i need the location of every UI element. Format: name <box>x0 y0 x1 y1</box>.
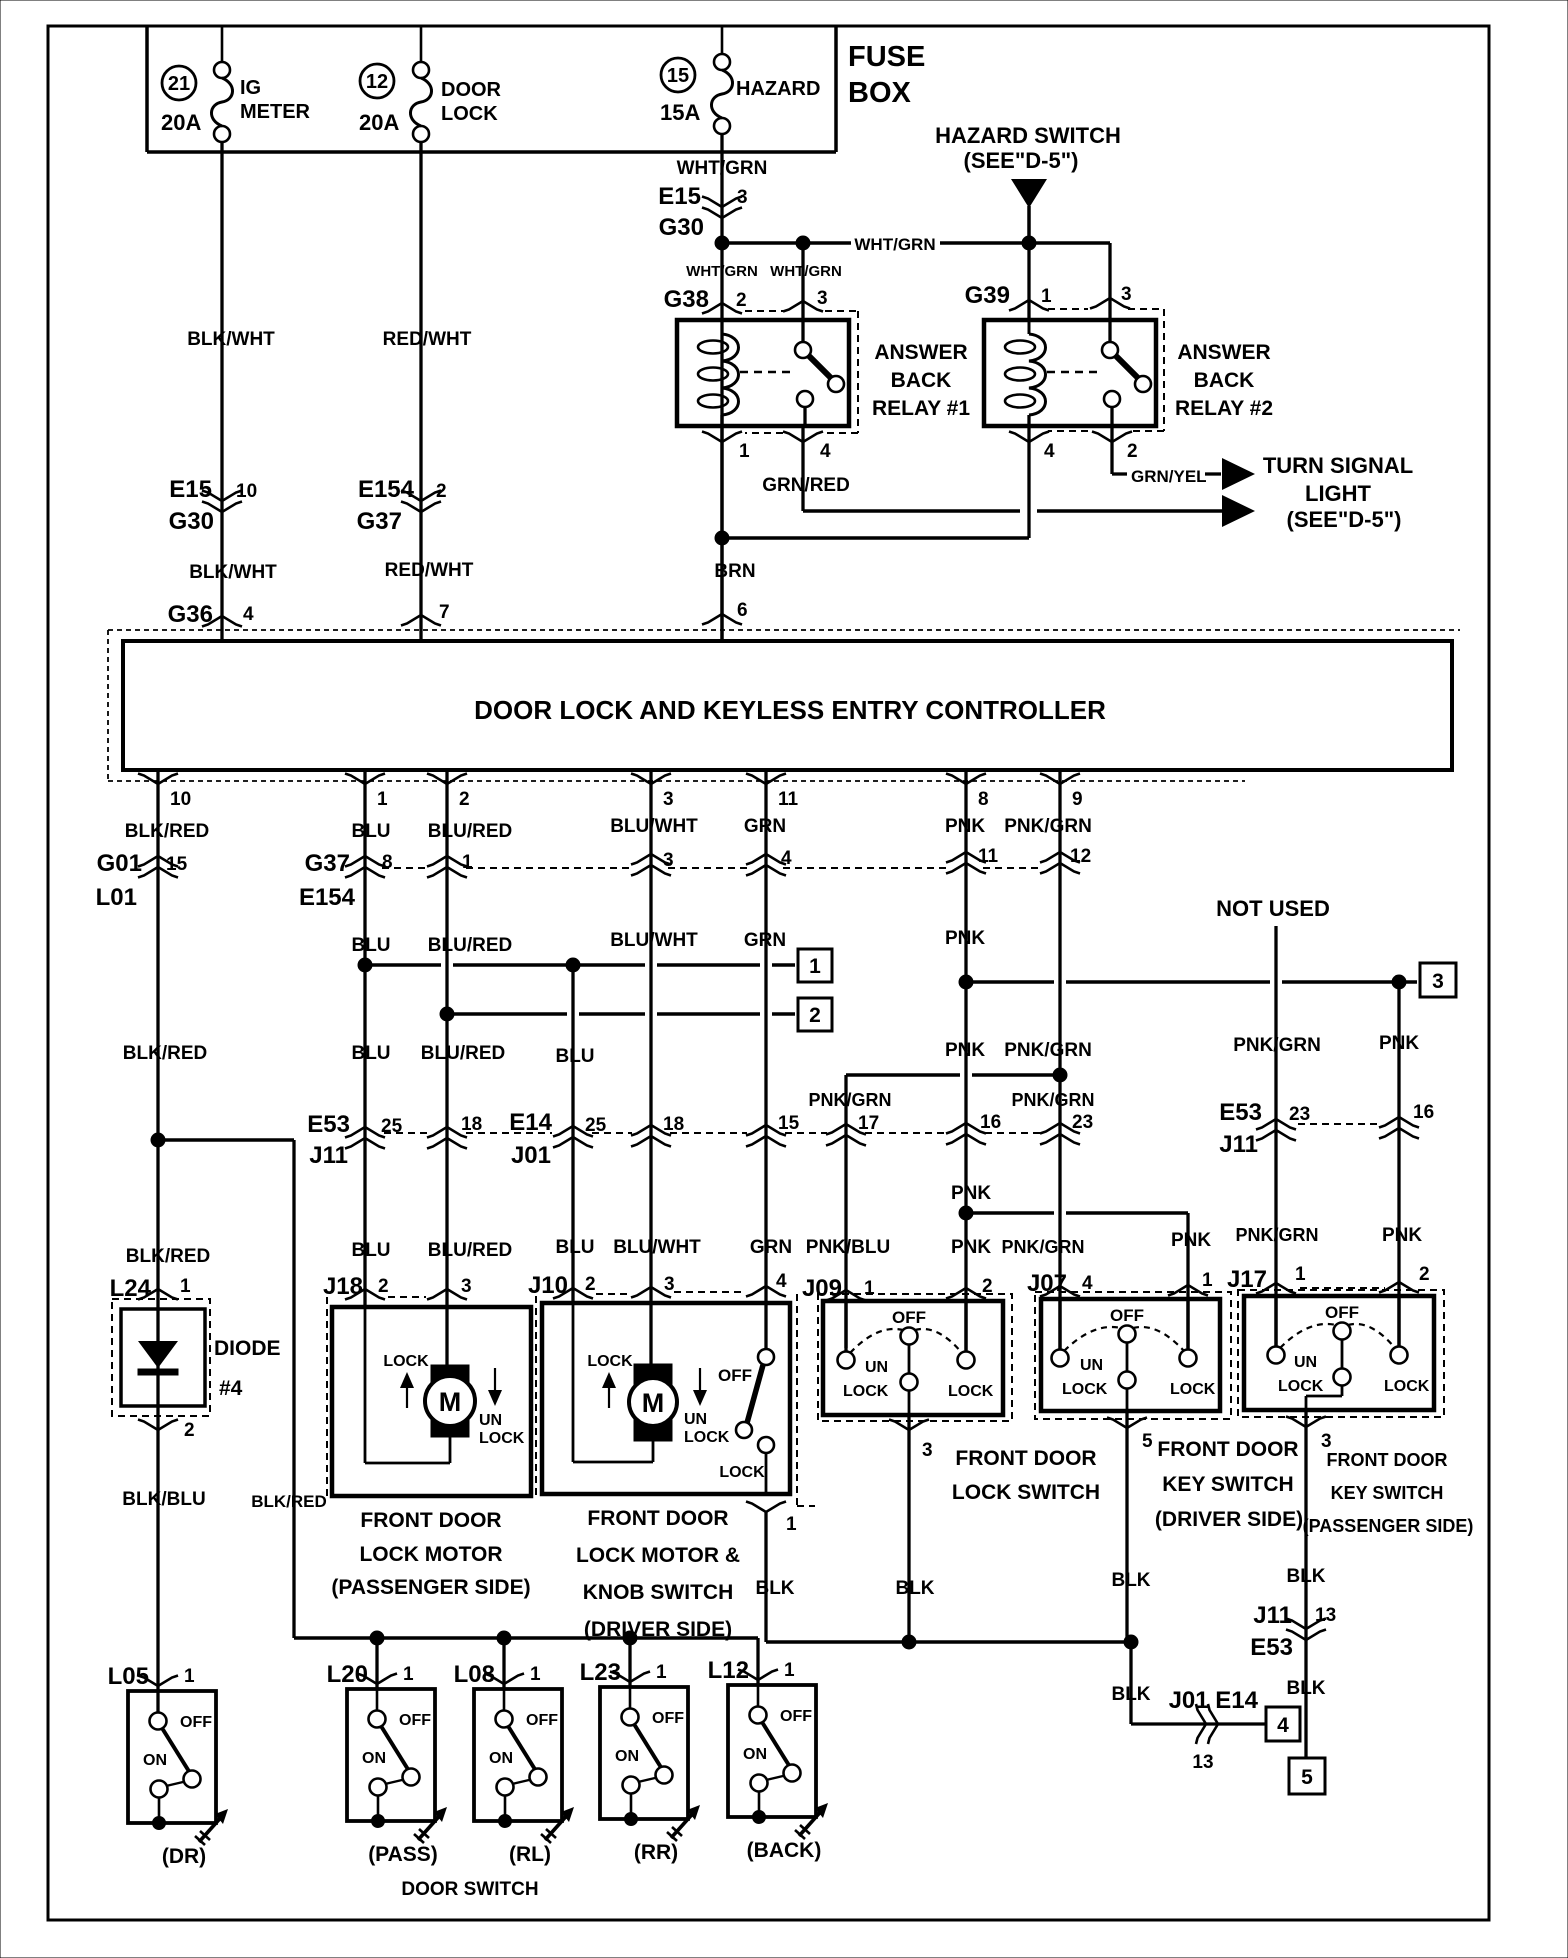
junction node bus L23 <box>623 1631 637 1686</box>
svg-text:PNK: PNK <box>1379 1033 1419 1054</box>
wire RED/WHT from fuse 12 to controller pin 7 <box>419 142 422 641</box>
J09 caption <box>952 1447 1100 1504</box>
controller pin 9 <box>1040 774 1083 811</box>
relay G39 dashed outline <box>1048 309 1164 431</box>
J07 caption <box>1155 1438 1303 1531</box>
svg-text:5: 5 <box>1301 1766 1313 1789</box>
labels WHT/GRN pair above relay G38 <box>686 263 842 280</box>
J17 front door key switch box <box>1244 1296 1434 1410</box>
svg-text:LOCK: LOCK <box>587 1353 633 1370</box>
dashed outline J09 <box>818 1294 1012 1421</box>
J09 pin 3 exit <box>889 1415 933 1642</box>
svg-text:J01 E14: J01 E14 <box>1169 1687 1259 1714</box>
wire door switch bus <box>294 1638 758 1684</box>
J07 switch labels <box>1062 1357 1216 1398</box>
fuse 21 20A IG METER <box>161 26 311 142</box>
wire BLK/WHT from fuse 21 to controller pin 4 <box>220 142 223 641</box>
svg-text:BLU: BLU <box>555 1046 594 1067</box>
wire color labels row 2 <box>351 928 985 956</box>
svg-text:J11: J11 <box>309 1142 348 1169</box>
door switch L12 caption (BACK) <box>747 1839 822 1862</box>
svg-text:GRN/RED: GRN/RED <box>762 475 850 496</box>
connector E14/J01 pin 25 <box>509 1109 606 1169</box>
ground at L23 <box>667 1805 700 1841</box>
svg-text:ON: ON <box>143 1752 167 1769</box>
svg-text:M: M <box>642 1388 665 1418</box>
svg-text:WHT/GRN: WHT/GRN <box>677 158 768 179</box>
junction node on BLU/RED <box>440 1007 454 1021</box>
svg-text:UN: UN <box>684 1411 707 1428</box>
svg-text:3: 3 <box>461 1276 472 1297</box>
svg-text:#4: #4 <box>219 1377 243 1400</box>
hazard switch symbol <box>935 123 1121 243</box>
svg-text:G30: G30 <box>659 214 704 241</box>
label BLK under J09 <box>895 1578 934 1599</box>
relay G38 pin 4 <box>783 432 831 463</box>
svg-text:BLU/WHT: BLU/WHT <box>610 816 698 837</box>
svg-text:WHT/GRN: WHT/GRN <box>686 263 758 280</box>
svg-text:PNK: PNK <box>945 816 985 837</box>
controller pin 2 <box>427 774 470 811</box>
svg-text:2: 2 <box>585 1274 596 1295</box>
svg-text:PNK: PNK <box>951 1183 991 1204</box>
svg-text:LOCK MOTOR: LOCK MOTOR <box>359 1543 502 1566</box>
J18 front door lock motor box <box>332 1307 531 1496</box>
wire color labels row 5 <box>126 1225 1423 1267</box>
svg-text:LOCK: LOCK <box>441 103 498 125</box>
svg-text:3: 3 <box>1121 284 1132 305</box>
svg-text:6: 6 <box>737 600 748 621</box>
junction node before box 3 <box>1392 975 1417 989</box>
J09 switch labels <box>843 1359 994 1400</box>
label BLK under J07 <box>1111 1570 1150 1591</box>
svg-text:E15: E15 <box>169 476 212 503</box>
dashed outline J07 <box>1035 1292 1231 1419</box>
svg-text:3: 3 <box>1321 1431 1332 1452</box>
wire BLU/RED from controller pin 2 <box>445 770 448 1365</box>
svg-text:OFF: OFF <box>180 1714 212 1731</box>
svg-text:BLK/WHT: BLK/WHT <box>189 562 277 583</box>
svg-text:LOCK: LOCK <box>383 1353 429 1370</box>
svg-text:BRN: BRN <box>714 561 755 582</box>
svg-text:GRN/YEL: GRN/YEL <box>1131 467 1207 486</box>
wire PNK branch from node 3 <box>1397 982 1400 1348</box>
svg-text:J17: J17 <box>1227 1266 1267 1293</box>
svg-text:(DRIVER SIDE): (DRIVER SIDE) <box>1155 1508 1303 1531</box>
svg-text:PNK: PNK <box>1171 1230 1211 1251</box>
svg-text:ON: ON <box>743 1746 767 1763</box>
svg-text:10: 10 <box>170 789 191 810</box>
svg-text:BACK: BACK <box>891 369 952 392</box>
junction node BLK bus J09 <box>902 1635 916 1649</box>
svg-text:11: 11 <box>778 789 799 810</box>
connector J18 pin 2 <box>323 1273 389 1300</box>
label BLK/WHT upper <box>187 329 275 350</box>
svg-text:LOCK: LOCK <box>479 1430 525 1447</box>
svg-text:UN: UN <box>479 1412 502 1429</box>
connector G37/E154 row dashed link <box>382 867 1043 869</box>
svg-text:OFF: OFF <box>718 1366 752 1385</box>
svg-text:ANSWER: ANSWER <box>1177 341 1270 364</box>
label BLK under J10 <box>755 1578 794 1599</box>
diode #4 label <box>214 1337 281 1400</box>
diode pin 2 <box>138 1420 195 1442</box>
svg-text:4: 4 <box>781 848 792 869</box>
relay G38 dashed outline <box>745 311 858 433</box>
svg-text:E154: E154 <box>358 476 415 503</box>
svg-text:L01: L01 <box>96 884 137 911</box>
label BLK above node box 5 <box>1286 1678 1325 1699</box>
connector J17 pin 1 <box>1227 1264 1306 1294</box>
svg-text:FUSE: FUSE <box>848 41 925 73</box>
svg-text:RED/WHT: RED/WHT <box>385 560 474 581</box>
wire BRN from relay pin1 to controller pin 6 <box>720 426 723 641</box>
svg-text:12: 12 <box>366 71 388 93</box>
svg-text:1: 1 <box>1041 286 1052 307</box>
door switch L12 pin 1 <box>708 1657 795 1684</box>
svg-text:23: 23 <box>1072 1112 1093 1133</box>
label BLK/WHT lower <box>189 562 277 583</box>
svg-text:15: 15 <box>667 65 689 87</box>
svg-text:(DR): (DR) <box>162 1845 206 1868</box>
connector J10 pin 2 <box>528 1272 596 1299</box>
dashed outline J17 <box>1238 1290 1444 1417</box>
label DOOR SWITCH <box>401 1879 538 1900</box>
svg-text:LIGHT: LIGHT <box>1305 481 1372 506</box>
svg-text:PNK/GRN: PNK/GRN <box>1004 1040 1092 1061</box>
J18 lock arrow <box>383 1353 429 1408</box>
wire BLK/RED from controller pin 10 <box>156 770 159 1713</box>
label RED/WHT lower <box>385 560 474 581</box>
labels PNK/GRN row 4 <box>808 1090 1094 1110</box>
svg-text:WHT/GRN: WHT/GRN <box>770 263 842 280</box>
svg-text:BLK/RED: BLK/RED <box>251 1492 327 1511</box>
J10 internal wires <box>573 1303 653 1462</box>
svg-text:21: 21 <box>168 73 190 95</box>
connector G37/E154 pin 1 <box>427 852 473 878</box>
label BRN <box>714 561 755 582</box>
J10 unlock arrow <box>684 1368 730 1446</box>
wire PNK/GRN branch to J09 <box>846 1075 1060 1348</box>
connector E15/G30 pin 3 on WHT/GRN <box>658 183 747 241</box>
svg-text:E154: E154 <box>299 884 356 911</box>
door switch L20 caption (PASS) <box>368 1843 438 1866</box>
svg-text:1: 1 <box>530 1664 541 1685</box>
relay G38 label <box>872 341 970 420</box>
svg-text:BLK/RED: BLK/RED <box>123 1043 207 1064</box>
svg-text:17: 17 <box>858 1113 879 1134</box>
J17 caption <box>1303 1450 1474 1536</box>
svg-text:(RR): (RR) <box>634 1841 678 1864</box>
connector E14/J01 pin 17 <box>826 1113 879 1146</box>
svg-text:5: 5 <box>1142 1431 1153 1452</box>
svg-text:ON: ON <box>362 1750 386 1767</box>
connector G01/L01 pin 15 <box>96 850 188 911</box>
connector J10 pin 4 <box>674 1271 787 1297</box>
svg-text:BLK: BLK <box>895 1578 934 1599</box>
svg-text:BLU/RED: BLU/RED <box>428 1240 512 1261</box>
svg-text:TURN SIGNAL: TURN SIGNAL <box>1263 453 1413 478</box>
svg-text:1: 1 <box>1295 1264 1306 1285</box>
svg-text:8: 8 <box>382 852 393 873</box>
connector E14/J01 pin 23 <box>1040 1112 1093 1145</box>
svg-text:LOCK: LOCK <box>1170 1381 1216 1398</box>
wire BLK ground bus <box>766 1512 1131 1642</box>
junction node on BLU <box>358 958 372 972</box>
svg-text:BLU/RED: BLU/RED <box>421 1043 505 1064</box>
node box 4 <box>1266 1707 1300 1741</box>
svg-text:2: 2 <box>184 1420 195 1441</box>
svg-text:(PASSENGER SIDE): (PASSENGER SIDE) <box>331 1576 530 1599</box>
svg-text:LOCK: LOCK <box>1384 1378 1430 1395</box>
svg-text:PNK: PNK <box>951 1237 991 1258</box>
door switch L23 pin 1 <box>580 1659 667 1686</box>
J10 front door lock motor and knob switch box <box>542 1303 790 1494</box>
J18 internal wires <box>365 1309 450 1463</box>
connector E15/G30 pin 10 on BLK/WHT <box>169 476 258 535</box>
wire BLK/RED branch to door switches <box>158 1140 294 1638</box>
svg-text:15: 15 <box>166 854 188 875</box>
svg-text:J18: J18 <box>323 1273 363 1300</box>
svg-text:BLK: BLK <box>755 1578 794 1599</box>
connector E154/G37 pin 2 on RED/WHT <box>357 476 447 535</box>
connector E53/J11 right pin 23 <box>1219 1099 1310 1158</box>
svg-text:DOOR: DOOR <box>441 79 502 101</box>
svg-text:BLU: BLU <box>351 1240 390 1261</box>
svg-text:1: 1 <box>377 789 388 810</box>
svg-text:E15: E15 <box>658 183 701 210</box>
svg-text:PNK/BLU: PNK/BLU <box>806 1237 890 1258</box>
label NOT USED <box>1216 896 1330 921</box>
wire BLU from controller pin 1 <box>363 770 366 1309</box>
svg-text:2: 2 <box>1127 441 1138 462</box>
svg-text:BLU: BLU <box>351 1043 390 1064</box>
svg-text:BLU/RED: BLU/RED <box>428 821 512 842</box>
connector J17 pin 2 <box>1300 1264 1430 1293</box>
junction node bus L08 <box>497 1631 511 1688</box>
relay G38 pin 1 <box>702 432 750 463</box>
svg-text:FRONT DOOR: FRONT DOOR <box>955 1447 1096 1470</box>
svg-text:3: 3 <box>1432 970 1444 993</box>
svg-text:OFF: OFF <box>652 1710 684 1727</box>
svg-text:(PASSENGER SIDE): (PASSENGER SIDE) <box>1303 1516 1474 1536</box>
label BLK/BLU <box>122 1489 205 1510</box>
connector J09 pin 1 <box>802 1275 875 1302</box>
J10 knob switch <box>718 1349 774 1494</box>
node box 3 <box>1420 963 1456 997</box>
svg-text:GRN: GRN <box>744 816 786 837</box>
connector G37/E154 pin 12 <box>1040 846 1091 874</box>
svg-text:LOCK: LOCK <box>843 1383 889 1400</box>
svg-text:KEY SWITCH: KEY SWITCH <box>1162 1473 1293 1496</box>
svg-text:PNK: PNK <box>945 928 985 949</box>
svg-text:BLK: BLK <box>1286 1566 1325 1587</box>
svg-text:1: 1 <box>739 441 750 462</box>
controller pin 1 <box>345 774 388 811</box>
svg-text:(SEE"D-5"): (SEE"D-5") <box>1287 507 1402 532</box>
connector J07 pin 4 <box>1027 1270 1093 1297</box>
svg-text:OFF: OFF <box>399 1712 431 1729</box>
wire color labels row 1 <box>125 816 1092 842</box>
wire PNK/GRN from controller pin 9 <box>1058 770 1061 1352</box>
svg-text:25: 25 <box>585 1115 607 1136</box>
svg-text:15A: 15A <box>660 100 700 125</box>
connector L24 pin 1 <box>110 1275 191 1302</box>
connector G36 pin 7 <box>401 602 450 626</box>
svg-text:OFF: OFF <box>1325 1303 1359 1322</box>
svg-text:2: 2 <box>1419 1264 1430 1285</box>
door switch L08 <box>474 1689 562 1828</box>
svg-text:(PASS): (PASS) <box>368 1843 438 1866</box>
turn signal light label <box>1263 453 1413 532</box>
label BLK/RED riser <box>251 1492 327 1511</box>
svg-text:FRONT DOOR: FRONT DOOR <box>360 1509 501 1532</box>
label GRN/RED <box>762 475 850 496</box>
answer back relay #1 (coil + switch) <box>677 320 849 426</box>
door switch L23 <box>600 1687 688 1826</box>
svg-text:18: 18 <box>461 1114 482 1135</box>
J17 pin 3 exit <box>1286 1410 1332 1758</box>
wire to node 1 <box>365 963 795 967</box>
svg-text:PNK: PNK <box>1382 1225 1422 1246</box>
relay G39 pin 2 <box>1092 432 1138 463</box>
svg-text:GRN: GRN <box>750 1237 792 1258</box>
svg-text:J11: J11 <box>1219 1131 1258 1158</box>
svg-text:25: 25 <box>381 1116 403 1137</box>
wire PNK to node 3 <box>966 980 1393 984</box>
diode #4 symbol <box>138 1341 178 1375</box>
J18 motor M <box>425 1365 475 1437</box>
door switch L20 pin 1 <box>327 1661 414 1688</box>
arrow to turn signal light (GRN/RED) <box>1222 495 1255 527</box>
wire WHT/GRN from fuse 15 <box>720 134 723 641</box>
svg-text:8: 8 <box>978 789 989 810</box>
svg-text:RED/WHT: RED/WHT <box>383 329 472 350</box>
connector E53/J11 right pin 16 <box>1298 1102 1434 1139</box>
connector J09 pin 2 <box>946 1276 993 1299</box>
diode #4 box <box>121 1309 205 1406</box>
svg-text:2: 2 <box>736 290 747 311</box>
svg-text:BLK: BLK <box>1286 1678 1325 1699</box>
door switch L23 caption (RR) <box>634 1841 678 1864</box>
svg-text:E14: E14 <box>509 1109 552 1136</box>
svg-text:20A: 20A <box>161 110 201 135</box>
svg-text:G37: G37 <box>305 850 350 877</box>
junction node on PNK lower <box>959 1206 973 1220</box>
svg-text:HAZARD: HAZARD <box>736 78 820 100</box>
node box 5 <box>1289 1758 1325 1794</box>
svg-text:PNK: PNK <box>945 1040 985 1061</box>
svg-text:BLK/BLU: BLK/BLU <box>122 1489 205 1510</box>
svg-text:1: 1 <box>403 1664 414 1685</box>
svg-text:METER: METER <box>240 101 311 123</box>
svg-text:PNK/GRN: PNK/GRN <box>1004 816 1092 837</box>
wire color labels row 3 <box>123 1033 1420 1067</box>
svg-text:BLK: BLK <box>1111 1684 1150 1705</box>
svg-text:E53: E53 <box>307 1111 350 1138</box>
J18 unlock arrow <box>479 1368 525 1447</box>
controller pin 11 <box>746 774 799 811</box>
connector E53/J11 row dashed link <box>384 1132 1041 1134</box>
label PNK above junction <box>951 1183 991 1204</box>
wire GRN from controller pin 11 <box>764 770 767 1350</box>
connector E53/J11 pin 18 <box>427 1114 482 1149</box>
door lock and keyless entry controller box <box>123 641 1452 770</box>
svg-text:15: 15 <box>778 1113 800 1134</box>
svg-text:(RL): (RL) <box>509 1843 551 1866</box>
J10 lock arrow <box>587 1353 633 1408</box>
svg-text:3: 3 <box>663 789 674 810</box>
svg-text:BLK/RED: BLK/RED <box>125 821 209 842</box>
label BLK above J01 E14 <box>1111 1684 1150 1705</box>
junction node on WHT/GRN at G38 coil <box>715 236 729 250</box>
svg-text:OFF: OFF <box>892 1308 926 1327</box>
wire PNK/GRN not used branch <box>1274 926 1277 1348</box>
svg-text:3: 3 <box>817 288 828 309</box>
svg-text:GRN: GRN <box>744 930 786 951</box>
svg-text:BLU/WHT: BLU/WHT <box>610 930 698 951</box>
svg-text:ON: ON <box>615 1748 639 1765</box>
connector J01 E14 pin 13 <box>1169 1687 1259 1773</box>
svg-text:DIODE: DIODE <box>214 1337 281 1360</box>
connector G37/E154 pin 8 <box>299 850 393 911</box>
svg-text:4: 4 <box>776 1271 787 1292</box>
svg-text:PNK/GRN: PNK/GRN <box>1233 1035 1321 1056</box>
svg-text:BLU: BLU <box>351 821 390 842</box>
door switch L05 caption (DR) <box>162 1845 206 1868</box>
svg-text:G37: G37 <box>357 508 402 535</box>
junction node BLK/RED branch <box>151 1133 165 1147</box>
svg-text:4: 4 <box>243 604 254 625</box>
svg-text:16: 16 <box>1413 1102 1434 1123</box>
door switch L08 pin 1 <box>454 1661 541 1688</box>
relay G39 pin 4 <box>1009 432 1055 463</box>
wire BLK to connector J01/E14 <box>1131 1642 1266 1724</box>
svg-text:4: 4 <box>1277 1714 1289 1737</box>
fuse 15 15A HAZARD <box>660 26 820 134</box>
svg-text:ON: ON <box>489 1750 513 1767</box>
svg-text:1: 1 <box>784 1660 795 1681</box>
svg-text:3: 3 <box>663 850 674 871</box>
wire BLU/WHT from controller pin 3 <box>649 770 652 1364</box>
connector E14/J01 pin 18 <box>631 1114 684 1147</box>
relay G39 label <box>1175 341 1273 420</box>
dashed outline J18 <box>326 1297 328 1500</box>
junction node on PNK <box>959 975 973 989</box>
svg-text:NOT USED: NOT USED <box>1216 896 1330 921</box>
svg-text:3: 3 <box>664 1274 675 1295</box>
svg-text:2: 2 <box>459 789 470 810</box>
connector G37/E154 pin 11 <box>946 846 999 874</box>
wire from relay G39 pin 4 to BRN junction <box>724 426 1029 538</box>
svg-text:4: 4 <box>1044 441 1055 462</box>
J17 switch labels <box>1278 1354 1430 1395</box>
connector G36 pin 4 <box>168 601 254 628</box>
svg-text:J09: J09 <box>802 1275 842 1302</box>
svg-text:2: 2 <box>809 1004 821 1027</box>
svg-text:G39: G39 <box>965 282 1010 309</box>
ground at L08 <box>541 1807 574 1843</box>
connector J18 pin 3 <box>388 1276 472 1300</box>
svg-text:HAZARD SWITCH: HAZARD SWITCH <box>935 123 1121 148</box>
svg-text:1: 1 <box>1202 1270 1213 1291</box>
J18 caption <box>331 1509 530 1599</box>
svg-text:LOCK SWITCH: LOCK SWITCH <box>952 1481 1100 1504</box>
svg-text:1: 1 <box>462 852 473 873</box>
arrow to turn signal light (GRN/YEL) <box>1222 458 1255 490</box>
connector G36 pin 6 <box>702 600 748 625</box>
wire GRN/YEL from relay G39 pin 2 <box>1112 426 1221 486</box>
